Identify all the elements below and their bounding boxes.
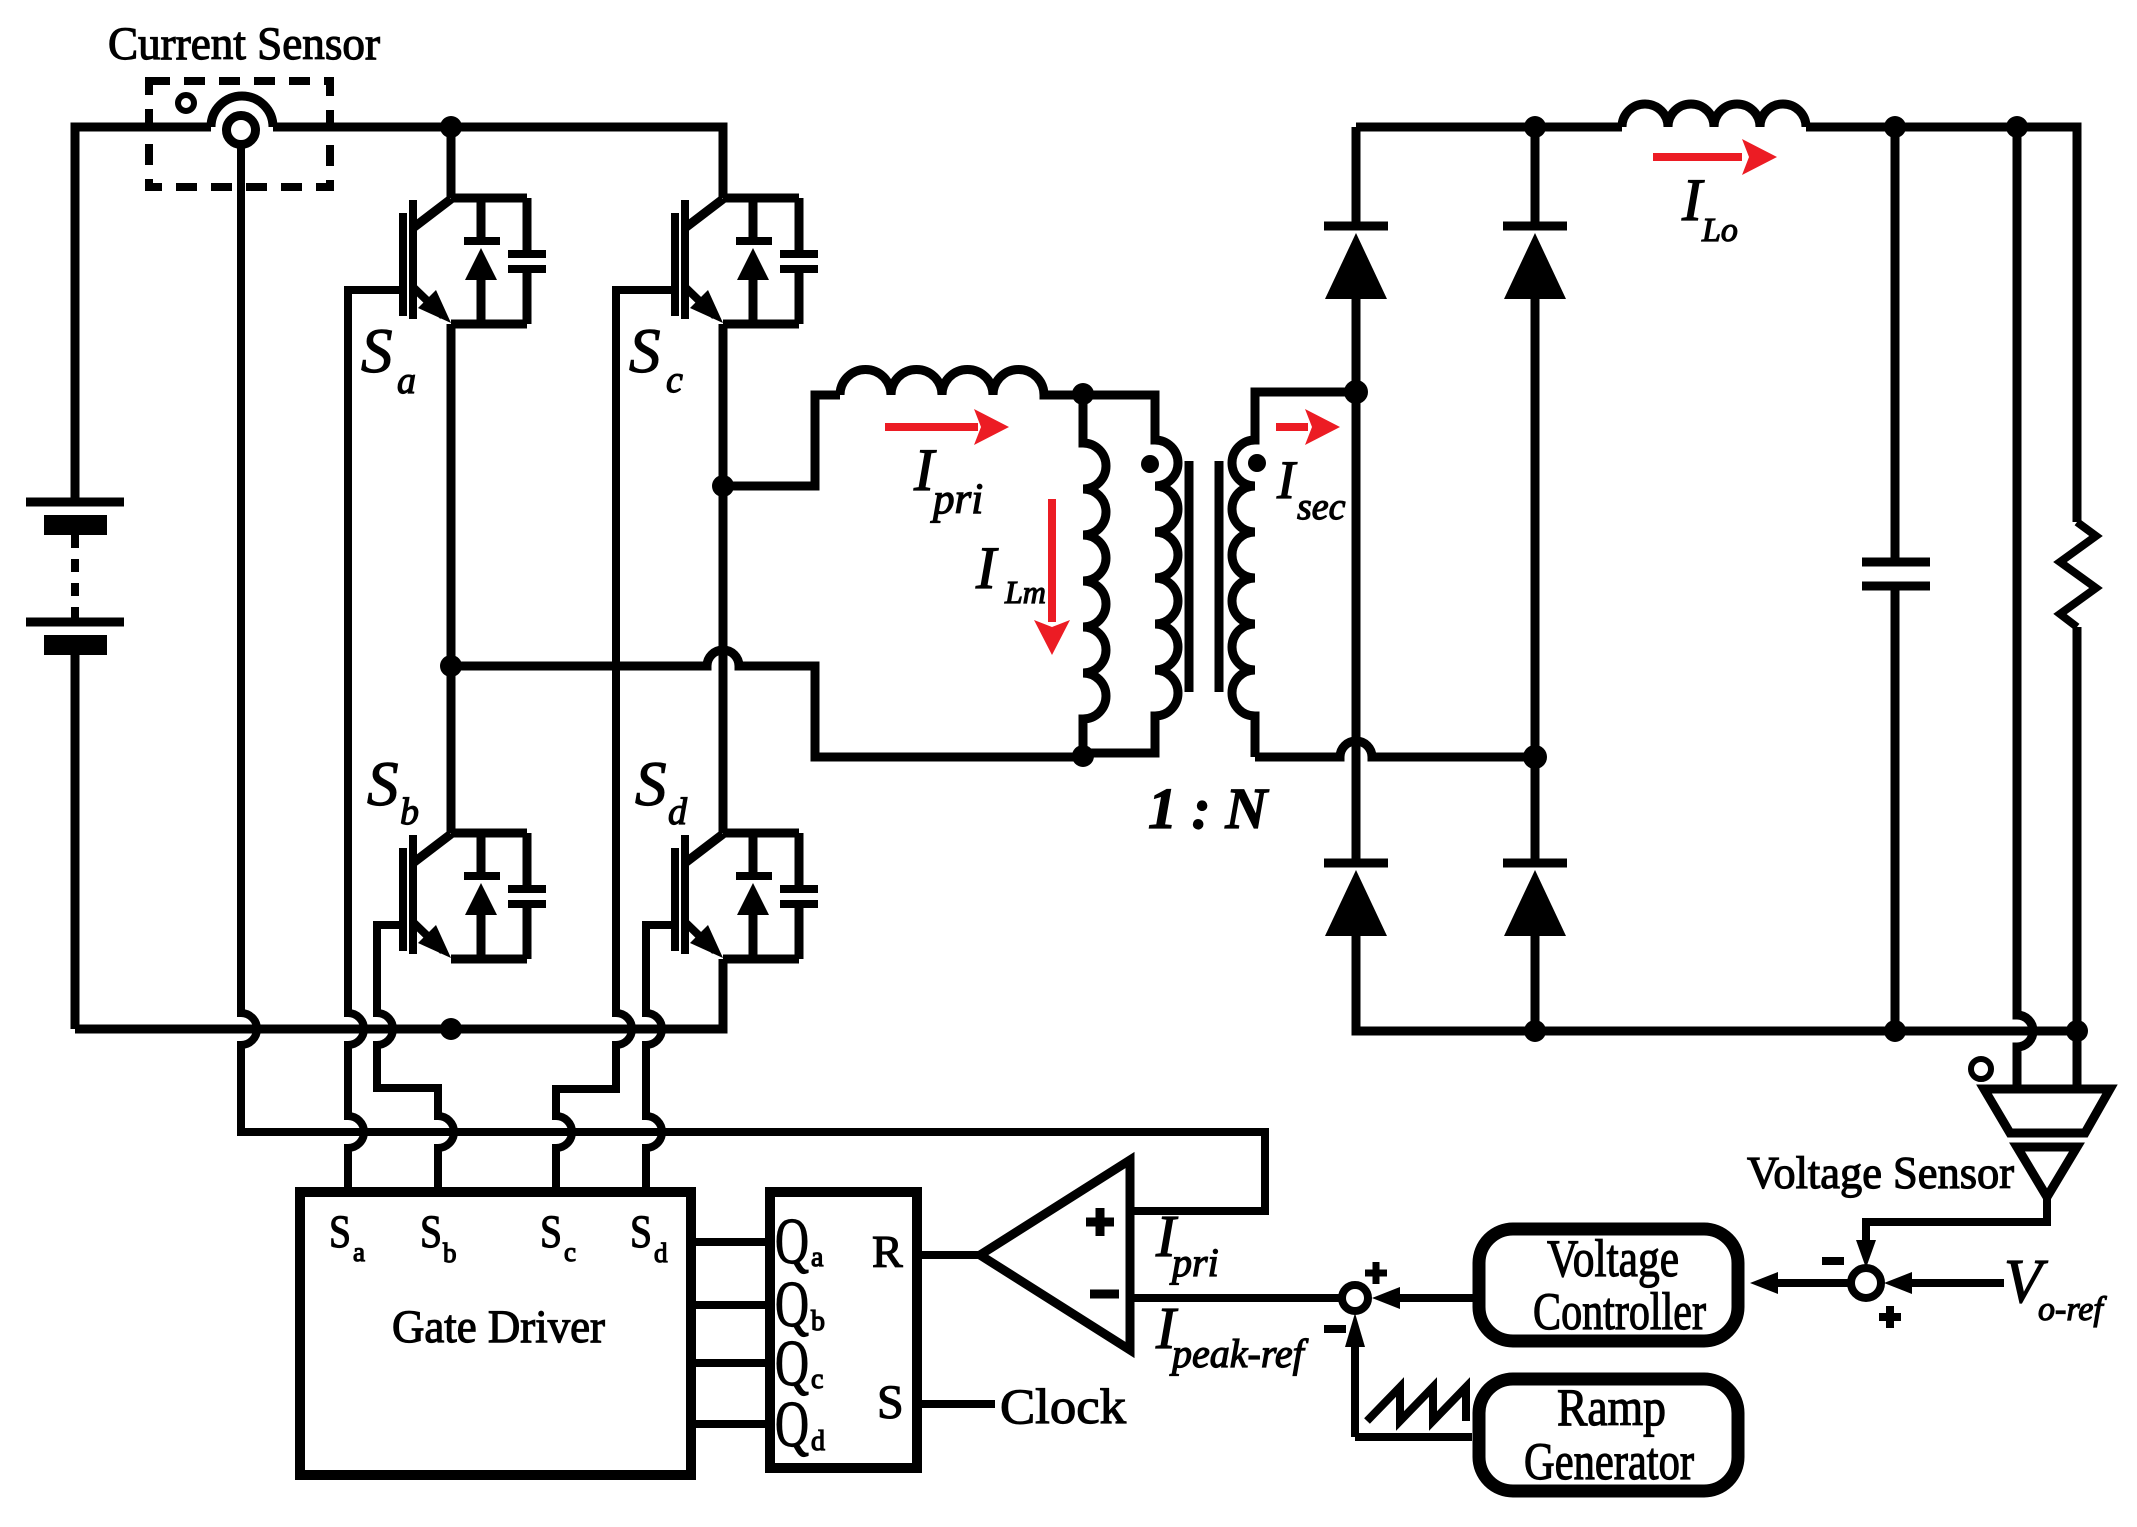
svg-text:S: S (630, 1206, 652, 1258)
wire comparator plus input loop (1130, 1132, 1265, 1211)
svg-text:Clock: Clock (1000, 1378, 1126, 1434)
wire Sa emitter to node A (447, 324, 456, 666)
wire rectifier top rail to Lo (1356, 123, 1622, 132)
inductor leakage Llk (840, 370, 1083, 396)
svg-text:S: S (420, 1206, 442, 1258)
svg-text:b: b (811, 1306, 825, 1337)
resistor Ro (2060, 522, 2096, 627)
wire left leg mid (1352, 299, 1361, 863)
svg-text:Q: Q (775, 1388, 809, 1461)
svg-text:Gate Driver: Gate Driver (392, 1301, 605, 1353)
wire rectifier left leg upper (1352, 127, 1361, 226)
wire S input (917, 1400, 995, 1408)
diode D2 (1503, 226, 1567, 299)
transistor Sa (403, 198, 546, 324)
wire node A to Sb collector (447, 666, 456, 833)
node B dot (712, 475, 734, 497)
svg-text:d: d (654, 1238, 668, 1268)
summer1 minus sign (1822, 1257, 1844, 1265)
svg-text:S: S (367, 749, 399, 819)
svg-text:c: c (564, 1237, 576, 1267)
wire voltage sensor to summer1 (1866, 1197, 2047, 1244)
wires latch Q outputs to driver (691, 1242, 770, 1424)
voltage sensor body (1984, 1089, 2110, 1133)
wire top rail left segment (75, 127, 211, 502)
svg-text:d: d (811, 1426, 825, 1457)
transformer core (1189, 461, 1219, 692)
voltage sensor aux circle (1971, 1059, 1991, 1079)
sawtooth ramp symbol (1367, 1387, 1466, 1421)
wire rectifier right leg upper (1531, 127, 1540, 226)
junction dot right leg bottom rail (1524, 1020, 1546, 1042)
red arrow Isec (1276, 423, 1308, 431)
svg-text:I: I (1276, 450, 1298, 510)
diode D1 (1324, 226, 1388, 299)
junction dot top rail cap (1884, 116, 1906, 138)
transformer secondary winding (1232, 392, 1356, 757)
svg-text:sec: sec (1297, 486, 1346, 528)
wire Sa gate (hops rail and sense line) (348, 290, 403, 1192)
summer1 plus sign (1879, 1306, 1901, 1328)
primary polarity dot (1141, 455, 1159, 473)
secondary polarity dot (1248, 454, 1266, 472)
wire top rail to Sc collector (273, 127, 723, 198)
wire sense tap leg (hops bottom rail) (2017, 127, 2033, 1089)
diode D4 (1503, 863, 1567, 936)
battery source (26, 502, 124, 655)
wire top rail Lo to load corner (1806, 127, 2077, 522)
svg-text:pri: pri (1169, 1240, 1219, 1285)
junction dot top rail right leg (1524, 116, 1546, 138)
voltage sensor amp triangle (2017, 1147, 2077, 1197)
arrow into summer1 top (1856, 1240, 1876, 1268)
svg-text:S: S (877, 1376, 904, 1429)
wire summer2 to comparator minus input (1130, 1294, 1342, 1302)
svg-text:S: S (540, 1206, 562, 1258)
wire right leg lower (1531, 936, 1540, 1031)
wire current sense line (hops rail, to comparator plus) (241, 145, 1265, 1211)
wire resistor leg to sensor (2073, 1031, 2082, 1089)
svg-text:I: I (975, 535, 999, 601)
svg-text:Lo: Lo (1701, 212, 1738, 249)
svg-text:S: S (629, 316, 661, 386)
wire Sc gate (hops rail and sense line) (556, 290, 675, 1192)
svg-text:b: b (443, 1238, 457, 1268)
svg-text:pri: pri (930, 476, 983, 523)
comparator minus (1090, 1290, 1119, 1299)
svg-text:Lm: Lm (1004, 574, 1046, 610)
red arrow ILm (1048, 499, 1056, 622)
current sensor aux terminal circle (178, 95, 194, 111)
svg-text:S: S (635, 749, 667, 819)
capacitor Co bottom lead (1891, 586, 1900, 1031)
svg-text:d: d (668, 791, 688, 833)
wire comparator output to R input (917, 1251, 982, 1259)
wire Sc emitter to node B (719, 324, 728, 486)
svg-text:c: c (811, 1364, 823, 1395)
svg-text:Controller: Controller (1533, 1283, 1706, 1341)
summing junction 2 (1342, 1285, 1368, 1311)
junction dot top rail sense leg (2006, 116, 2028, 138)
wire Vo-ref input arrow (1910, 1279, 2004, 1287)
transistor Sc (675, 198, 818, 324)
junction dot secondary bottom (1523, 745, 1547, 769)
svg-text:Generator: Generator (1524, 1433, 1694, 1491)
red arrow ILo (1653, 153, 1742, 161)
node A dot (440, 655, 462, 677)
svg-text:a: a (353, 1237, 365, 1267)
junction dot resistor bottom rail (2066, 1020, 2088, 1042)
box Gate Driver (300, 1192, 691, 1475)
inductor magnetizing Lm (1083, 395, 1106, 757)
wire Sd gate (hops rail and sense line) (646, 925, 675, 1192)
diode D3 (1324, 863, 1388, 936)
svg-text:b: b (400, 791, 419, 833)
wire battery negative lead (71, 655, 80, 1029)
capacitor Co top lead (1891, 127, 1900, 562)
svg-text:a: a (811, 1242, 824, 1273)
svg-text:Current Sensor: Current Sensor (108, 18, 380, 70)
junction dot secondary top (1344, 380, 1368, 404)
box Ramp Generator (1479, 1379, 1738, 1491)
current sensor CT circle (227, 116, 256, 145)
transistor Sb (403, 833, 546, 959)
wire summer1 to Voltage Controller (1775, 1279, 1851, 1287)
comparator U1 (980, 1160, 1130, 1350)
red arrow Ipri (885, 423, 978, 431)
box SR latch (770, 1192, 917, 1468)
wire Sb gate (hops rail and sense line) (377, 925, 454, 1192)
inductor Lo (1622, 104, 1806, 127)
svg-text:a: a (397, 360, 416, 402)
svg-text:S: S (329, 1206, 351, 1258)
svg-text:Ramp: Ramp (1557, 1379, 1666, 1437)
junction dot Sb emitter on rail (440, 1018, 462, 1040)
svg-text:R: R (872, 1226, 903, 1277)
summer2 plus sign (1365, 1262, 1387, 1284)
transistor Sd (675, 833, 818, 959)
svg-text:peak-ref: peak-ref (1169, 1331, 1309, 1376)
wire node B to leakage inductor (723, 395, 840, 486)
node P1 dot (1072, 383, 1094, 405)
svg-text:Voltage Sensor: Voltage Sensor (1747, 1147, 2014, 1198)
wire bottom power rail (75, 959, 723, 1029)
wire VC to summer2 arrow (1397, 1294, 1473, 1302)
wire ramp generator to summer2 arrow (1351, 1344, 1359, 1437)
svg-text:c: c (666, 359, 683, 401)
current sensor dashed box (149, 81, 330, 187)
capacitor Co (1862, 562, 1930, 586)
wire resistor bottom lead (2073, 627, 2082, 1031)
junction dot cap bottom rail (1884, 1020, 1906, 1042)
wire left leg lower to bottom rail (1356, 936, 2077, 1031)
transformer primary winding (1083, 395, 1178, 753)
comparator plus (1086, 1208, 1114, 1236)
summing junction 1 (1851, 1268, 1881, 1298)
svg-text:o-ref: o-ref (2038, 1291, 2107, 1328)
wire right leg mid (1531, 299, 1540, 863)
node P2 dot (1072, 745, 1094, 767)
box Voltage Controller (1479, 1229, 1738, 1341)
wire node B to Sd collector (719, 486, 728, 833)
current sensor hop arc (211, 96, 273, 127)
wire Sa collector (447, 127, 456, 198)
summer2 minus sign (1324, 1325, 1346, 1333)
svg-text:Voltage: Voltage (1547, 1230, 1679, 1288)
junction dot DC+ node (440, 116, 462, 138)
wire secondary bottom to rectifier (hops left leg) (1255, 741, 1535, 757)
wire node A to transformer bottom (hops Sd collector) (451, 650, 1083, 757)
svg-text:1 : N: 1 : N (1148, 776, 1269, 841)
svg-text:S: S (361, 316, 393, 386)
